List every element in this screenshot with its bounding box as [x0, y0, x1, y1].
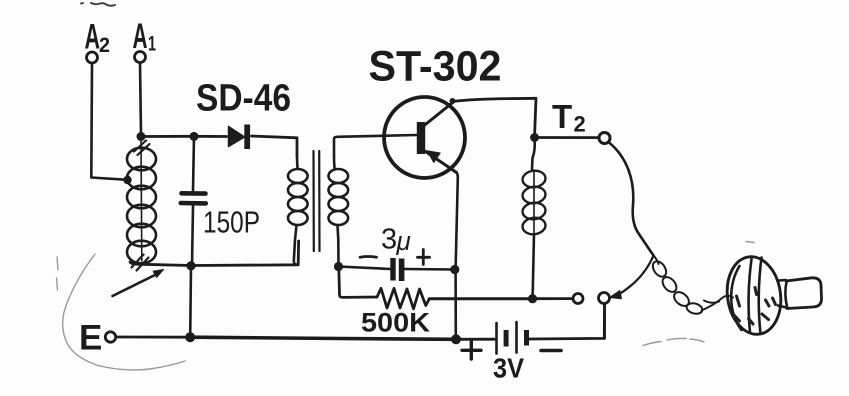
svg-text:150P: 150P — [203, 205, 260, 240]
svg-text:2: 2 — [99, 34, 110, 57]
svg-text:3: 3 — [381, 224, 397, 256]
svg-text:500K: 500K — [361, 308, 431, 338]
svg-text:T: T — [552, 98, 572, 135]
svg-text:2: 2 — [574, 112, 586, 137]
svg-text:A: A — [85, 18, 101, 57]
svg-text:E: E — [79, 319, 102, 358]
svg-text:3V: 3V — [493, 353, 524, 384]
svg-text:μ: μ — [396, 226, 411, 256]
svg-text:1: 1 — [148, 33, 156, 56]
svg-text:SD-46: SD-46 — [196, 78, 291, 120]
svg-text:ST-302: ST-302 — [369, 43, 502, 91]
svg-text:A: A — [133, 17, 148, 56]
